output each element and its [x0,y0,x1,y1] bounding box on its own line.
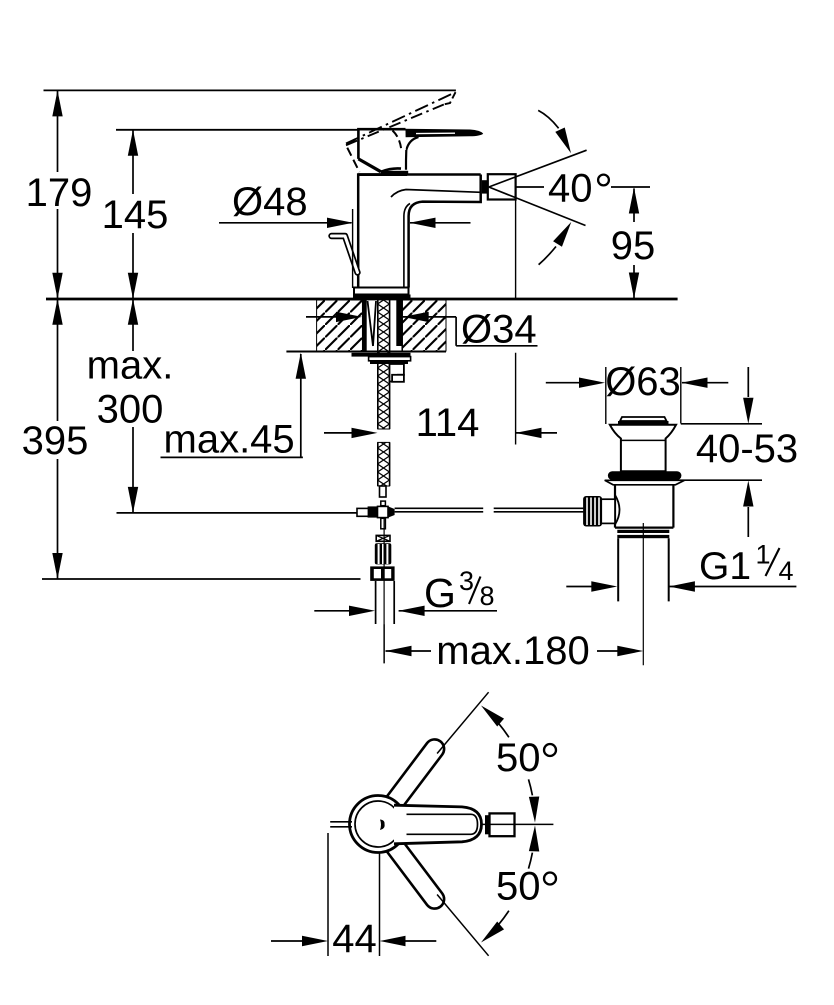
svg-text:40-53: 40-53 [696,427,798,471]
base plate [354,288,409,295]
handle neck front edge [405,150,408,170]
waste plug cap [620,417,667,421]
svg-text:50: 50 [496,865,541,909]
waste centerline [642,523,644,665]
raised handle neck dashes [393,131,402,153]
waste diameter63 extension lines [605,367,607,424]
svg-text:95: 95 [611,224,656,268]
aerator projection extension line [515,200,517,445]
diameter 34 leader step [455,317,457,346]
degree symbol 40 [598,175,609,186]
svg-text:max.: max. [87,344,174,388]
dimension diameter 48 leader [219,222,352,224]
pop-up tee dark block [368,506,378,517]
waste tailpipe [618,538,669,601]
plan handle rotated up 50deg [385,739,444,810]
svg-text:395: 395 [22,419,89,463]
svg-text:max.45: max.45 [164,418,295,462]
pop-up tee right wedge [388,506,395,517]
body top shadow bar [358,173,407,176]
dimension diameter 63 [546,382,580,384]
deck hatch left of hole [317,300,363,351]
pop-up tee body [378,506,389,517]
handle lever closed position [404,129,483,138]
body inner waterway line [391,190,481,198]
40deg leader line [611,186,650,188]
dimension 179 vertical line [57,90,59,172]
395 bottom reference line [42,578,361,580]
hose lower tube [380,486,387,497]
threaded shank left dark bar [363,300,367,351]
plan aerator dark bar [485,815,489,834]
svg-text:44: 44 [332,917,377,961]
raised handle tip dashes [445,92,456,104]
tee lower tube [381,518,386,529]
svg-text:4: 4 [779,556,794,586]
base gasket dark bar [353,295,411,299]
svg-text:179: 179 [26,171,93,215]
svg-text:Ø48: Ø48 [232,180,308,224]
svg-text:Ø63: Ø63 [605,360,681,404]
svg-text:40: 40 [548,167,593,211]
body inner highlight lines [404,204,410,290]
waste joint dark bands [617,530,669,533]
svg-text:50: 50 [496,736,541,780]
handle-body gap shadow bar [381,171,408,176]
40deg arc arrow upper [538,110,558,128]
top reference line (179 level) [44,89,456,91]
check valve collar [376,535,390,541]
plan handle rotated down 50deg [385,838,444,909]
locknut dark bar under deck [352,353,411,357]
plan rotated handle centerline upper [437,692,489,753]
waste valve body [615,485,673,528]
waste washer [605,480,685,485]
spray line lower (40 deg) [489,187,586,226]
dimension max.300 vertical line [132,299,134,351]
50deg upper arc dimension [498,723,509,737]
handle base block [358,129,406,172]
reference line (145 level) [116,129,359,131]
deck top surface line [46,298,678,301]
dimension 40-53 [681,423,762,425]
diameter 48 extension line [352,209,354,288]
handle neck underside curve [406,137,418,150]
dimension 114 [324,432,354,434]
tee stub [381,501,386,506]
dimension 95 vertical line [633,189,635,223]
dimension diameter 34 arrows [306,316,338,318]
faucet body and spout outline [358,173,481,287]
svg-text:1: 1 [756,540,771,570]
max.300 bottom reference line [117,512,358,514]
max.180 left extension line [383,624,385,663]
plan aerator block [490,813,515,836]
plan spout inner lines [407,814,478,834]
shank wedge lines [368,301,377,346]
svg-text:145: 145 [102,193,169,237]
pop-up pull rod at back [332,236,358,273]
plan pop-up rod [330,822,352,827]
40deg arc arrow lower [539,247,556,265]
waste flange [610,425,676,472]
washer under locknut [369,357,411,361]
svg-text:3: 3 [459,566,474,596]
supply pipe G3/8 [376,581,395,624]
dimension G1 1/4 [591,581,617,591]
dimension 44 [327,833,329,956]
dimension 395 vertical line [57,299,59,421]
plan spout lever [394,805,482,844]
svg-text:max.180: max.180 [436,629,589,673]
svg-text:300: 300 [97,388,164,432]
plan centerline [482,823,553,825]
spray line upper (40 deg) [489,150,587,187]
aerator dark bar [482,180,488,193]
mounting hole left edge [362,300,364,351]
raised handle dash-dot outline lower [346,104,445,145]
threaded shank right dark bar [396,300,402,346]
plan view outer body circle [350,796,407,853]
svg-text:114: 114 [416,401,480,445]
dimension G3/8 [314,610,351,612]
raised handle butt dashes [346,139,360,172]
flexible hose lower segment [378,442,390,486]
rod knob stem [601,499,616,523]
dimension max.180 [386,646,412,656]
bracket dark bar [370,361,408,364]
mounting hole right edge [401,300,403,351]
raised handle dash-dot outline upper [346,92,456,143]
svg-text:Ø34: Ø34 [461,308,537,352]
knurled rod knob [583,496,602,527]
supply hex nut [370,566,394,581]
plan logo mark [380,820,385,831]
svg-text:G: G [424,570,456,616]
deck bottom line [286,351,446,353]
rod guide nut [390,364,404,382]
40deg leader from box [516,186,544,188]
flexible hose upper segment [378,299,390,429]
svg-text:8: 8 [480,581,495,611]
aerator housing box [488,174,516,199]
plan view inner circle [355,801,401,847]
50deg lower arc dimension [498,911,509,925]
horizontal pop-up rod [395,508,584,512]
supply pipe centerline [383,519,385,663]
plan rotated handle centerline lower [437,895,489,956]
knurled nut [375,543,392,564]
pop-up tee left nub [357,508,370,516]
svg-text:G1: G1 [699,545,751,588]
dimension 145 vertical line [132,130,134,194]
waste o-ring seal [608,471,682,480]
valve body socket arc [615,495,620,525]
deck hatch right of hole [402,300,446,351]
